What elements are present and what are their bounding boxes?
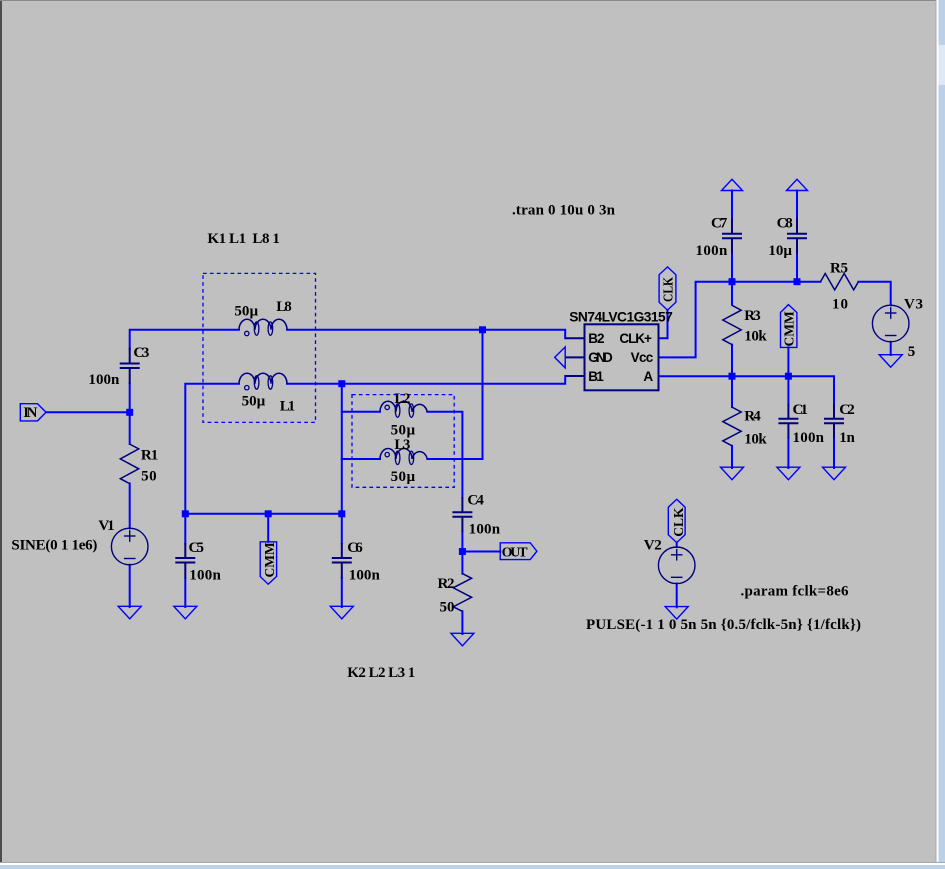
svg-text:.param fclk=8e6: .param fclk=8e6 bbox=[741, 584, 850, 600]
svg-text:50: 50 bbox=[141, 468, 157, 484]
svg-text:L1: L1 bbox=[280, 399, 296, 415]
wire V1 bottom to ground bbox=[129, 565, 131, 607]
svg-text:K1 L1 L8 1: K1 L1 L8 1 bbox=[207, 231, 280, 247]
IC U1 SN74LVC1G3157 box bbox=[585, 324, 659, 390]
capacitor C6 bbox=[332, 543, 352, 579]
node top rail/L3 riser bbox=[479, 326, 486, 333]
ground R2 bbox=[451, 633, 474, 646]
port OUT bbox=[500, 543, 537, 560]
voltage source V2 bbox=[658, 547, 695, 584]
node Vcc rail/C8 bbox=[794, 278, 801, 285]
node C5/rail bbox=[182, 510, 189, 517]
svg-text:50: 50 bbox=[440, 600, 455, 616]
svg-text:10: 10 bbox=[832, 297, 848, 313]
inductor L1 bbox=[239, 373, 287, 390]
svg-text:Vcc: Vcc bbox=[631, 350, 654, 365]
svg-text:L2: L2 bbox=[394, 391, 410, 407]
pin B1 stub bbox=[565, 375, 584, 377]
wire R3 top lead bbox=[731, 282, 733, 305]
resistor R1 bbox=[120, 444, 138, 484]
wire C6 column bbox=[341, 384, 343, 544]
wire L1 left lead column (C5 column) bbox=[185, 384, 239, 544]
wire IN to junction bbox=[46, 411, 130, 413]
wire C2 bottom to ground bbox=[833, 438, 835, 468]
svg-text:B1: B1 bbox=[588, 369, 604, 384]
wire mid rail C5 to C6 bbox=[185, 513, 341, 515]
wire C1 top lead bbox=[787, 376, 789, 404]
svg-text:10µ: 10µ bbox=[768, 243, 792, 259]
svg-text:CMM: CMM bbox=[782, 311, 797, 346]
svg-text:CMM: CMM bbox=[262, 542, 277, 577]
node A rail/CMM/C1 bbox=[785, 373, 792, 380]
svg-text:V1: V1 bbox=[98, 518, 114, 534]
svg-text:C5: C5 bbox=[189, 540, 205, 556]
wire C7 bottom to Vcc rail bbox=[731, 253, 733, 282]
pin GND stub bbox=[565, 356, 584, 358]
wire C8 power flag drop bbox=[796, 191, 798, 220]
wire R3 bottom lead bbox=[731, 345, 733, 377]
ground V3 bbox=[879, 355, 902, 368]
ground R4 bbox=[721, 467, 744, 480]
capacitor C7 bbox=[722, 219, 742, 254]
svg-text:IN: IN bbox=[23, 405, 37, 421]
svg-text:V3: V3 bbox=[904, 297, 923, 313]
svg-text:100n: 100n bbox=[349, 568, 381, 584]
window top edge bbox=[0, 0, 945, 1]
node OUT/C4/R2 bbox=[459, 548, 466, 555]
ground C6 bbox=[330, 606, 353, 619]
capacitor C1 bbox=[778, 404, 798, 439]
svg-text:10k: 10k bbox=[744, 431, 767, 447]
power flag above C8 bbox=[787, 179, 808, 190]
resistor R5 (horizontal) bbox=[821, 274, 859, 290]
wire CMM left drop bbox=[267, 514, 269, 542]
svg-text:C3: C3 bbox=[133, 345, 149, 361]
svg-text:V2: V2 bbox=[644, 538, 662, 554]
svg-text:R1: R1 bbox=[141, 448, 158, 464]
wire L3 right lead to top rail riser bbox=[427, 330, 482, 459]
svg-text:R4: R4 bbox=[744, 408, 761, 424]
inductor L8 bbox=[239, 319, 287, 335]
svg-text:C1: C1 bbox=[793, 402, 809, 418]
capacitor C4 bbox=[452, 497, 472, 532]
svg-text:K2 L2 L3 1: K2 L2 L3 1 bbox=[347, 665, 415, 681]
node CMM left/rail bbox=[265, 510, 272, 517]
svg-text:50µ: 50µ bbox=[391, 469, 416, 485]
svg-text:CLK: CLK bbox=[671, 507, 686, 537]
wire CMM right flag to A rail bbox=[787, 347, 789, 376]
svg-text:CLK: CLK bbox=[660, 277, 675, 302]
voltage source V1 bbox=[111, 528, 148, 565]
svg-text:5: 5 bbox=[908, 344, 916, 360]
svg-text:100n: 100n bbox=[189, 568, 221, 584]
port CMM left bbox=[260, 542, 276, 584]
mutual inductance box K2 bbox=[352, 395, 454, 488]
wire top rail left (C3 top to L8) bbox=[130, 330, 239, 349]
wire C1 bottom to ground bbox=[787, 438, 789, 468]
wire OUT junction to OUT flag bbox=[462, 551, 500, 553]
svg-text:C8: C8 bbox=[777, 215, 793, 231]
capacitor C5 bbox=[175, 543, 195, 579]
node IN/C3/R1 bbox=[126, 409, 133, 416]
svg-text:L8: L8 bbox=[276, 299, 292, 315]
svg-text:1n: 1n bbox=[839, 430, 855, 446]
svg-text:C2: C2 bbox=[839, 402, 855, 418]
wire R2 bottom to ground bbox=[461, 611, 463, 634]
svg-text:R3: R3 bbox=[744, 308, 760, 324]
port CLK at IC bbox=[659, 267, 676, 310]
svg-text:C6: C6 bbox=[347, 540, 363, 556]
wire L1 right to B1 jog bbox=[287, 376, 565, 384]
wire C7 power flag drop bbox=[731, 191, 733, 220]
inductor L3 bbox=[380, 449, 427, 465]
wire R4 top lead bbox=[731, 376, 733, 407]
capacitor C2 bbox=[824, 404, 844, 439]
svg-text:SINE(0 1 1e6): SINE(0 1 1e6) bbox=[11, 538, 97, 554]
wire C3 bottom to R1 top bbox=[129, 383, 131, 444]
svg-text:R5: R5 bbox=[830, 261, 848, 277]
resistor R3 bbox=[723, 305, 741, 344]
wire C6 bottom to ground bbox=[341, 578, 343, 607]
svg-text:.tran 0 10u 0 3n: .tran 0 10u 0 3n bbox=[512, 203, 616, 219]
capacitor C3 bbox=[120, 348, 140, 385]
inductor L2 bbox=[380, 401, 427, 417]
ground flag at IC GND pin (points left) bbox=[555, 347, 566, 368]
bottom scrollbar bbox=[0, 862, 945, 869]
svg-text:50µ: 50µ bbox=[234, 304, 258, 320]
port CLK at V2 bbox=[668, 499, 685, 542]
voltage source V3 bbox=[872, 305, 909, 342]
wire V3 bottom to ground bbox=[890, 342, 892, 355]
svg-text:A: A bbox=[643, 369, 653, 384]
node A rail/R3/R4 bbox=[729, 373, 736, 380]
wire R5 right to V3 bbox=[858, 282, 890, 306]
wire R4 bottom to ground bbox=[731, 446, 733, 468]
node L1/C6 column bbox=[338, 380, 345, 387]
wire L3 left lead bbox=[342, 458, 380, 460]
wire CLK flag to V2 top bbox=[676, 543, 678, 548]
svg-text:PULSE(-1 1 0 5n 5n {0.5/fclk-5: PULSE(-1 1 0 5n 5n {0.5/fclk-5n} {1/fclk… bbox=[586, 617, 861, 633]
port CMM right bbox=[781, 305, 797, 348]
wire L2 left lead bbox=[342, 411, 380, 413]
svg-text:GND: GND bbox=[588, 350, 613, 365]
wire A rail bbox=[659, 376, 835, 404]
resistor R2 bbox=[453, 574, 471, 612]
wire L2 right lead to C4 bbox=[427, 412, 462, 498]
svg-text:OUT: OUT bbox=[502, 546, 529, 561]
svg-text:10k: 10k bbox=[744, 329, 767, 345]
port IN bbox=[20, 404, 46, 421]
svg-text:CLK+: CLK+ bbox=[619, 331, 652, 346]
svg-text:100n: 100n bbox=[793, 430, 825, 446]
wire CLK flag to CLK+ pin bbox=[659, 310, 668, 338]
svg-text:B2: B2 bbox=[588, 331, 604, 346]
wire C4 bottom to OUT junction bbox=[461, 532, 463, 552]
node Vcc rail/C7 bbox=[729, 278, 736, 285]
window left edge bbox=[0, 0, 2, 864]
mutual inductance box K1 bbox=[203, 273, 316, 422]
wire V2 bottom to ground bbox=[676, 584, 678, 608]
ground C2 bbox=[823, 467, 846, 480]
wire R1 bottom to V1 top bbox=[129, 484, 131, 529]
power flag above C7 bbox=[722, 179, 743, 190]
wire C5 bottom to ground bbox=[184, 578, 186, 607]
right scrollbar bbox=[936, 0, 945, 864]
ground C1 bbox=[777, 467, 800, 480]
capacitor C8 bbox=[787, 219, 807, 254]
svg-text:C4: C4 bbox=[467, 493, 484, 509]
wire top rail right (L8 to B2 jog) bbox=[287, 330, 565, 339]
ground V1 bbox=[118, 606, 141, 619]
resistor R4 bbox=[723, 407, 741, 446]
svg-text:100n: 100n bbox=[88, 372, 120, 388]
wire OUT junction to R2 bbox=[461, 552, 463, 574]
ground C5 bbox=[174, 606, 197, 619]
svg-text:50µ: 50µ bbox=[242, 393, 266, 409]
node C6/rail bbox=[338, 510, 345, 517]
svg-text:100n: 100n bbox=[469, 522, 501, 538]
svg-text:C7: C7 bbox=[711, 215, 728, 231]
svg-text:L3: L3 bbox=[394, 437, 410, 453]
wire Vcc pin to Vcc rail bbox=[659, 282, 821, 358]
svg-text:SN74LVC1G3157: SN74LVC1G3157 bbox=[569, 310, 673, 325]
svg-text:100n: 100n bbox=[696, 243, 728, 259]
wire C8 bottom to Vcc rail bbox=[796, 253, 798, 282]
pin B2 stub bbox=[565, 337, 584, 339]
ground V2 bbox=[665, 607, 688, 620]
svg-text:R2: R2 bbox=[438, 576, 455, 592]
